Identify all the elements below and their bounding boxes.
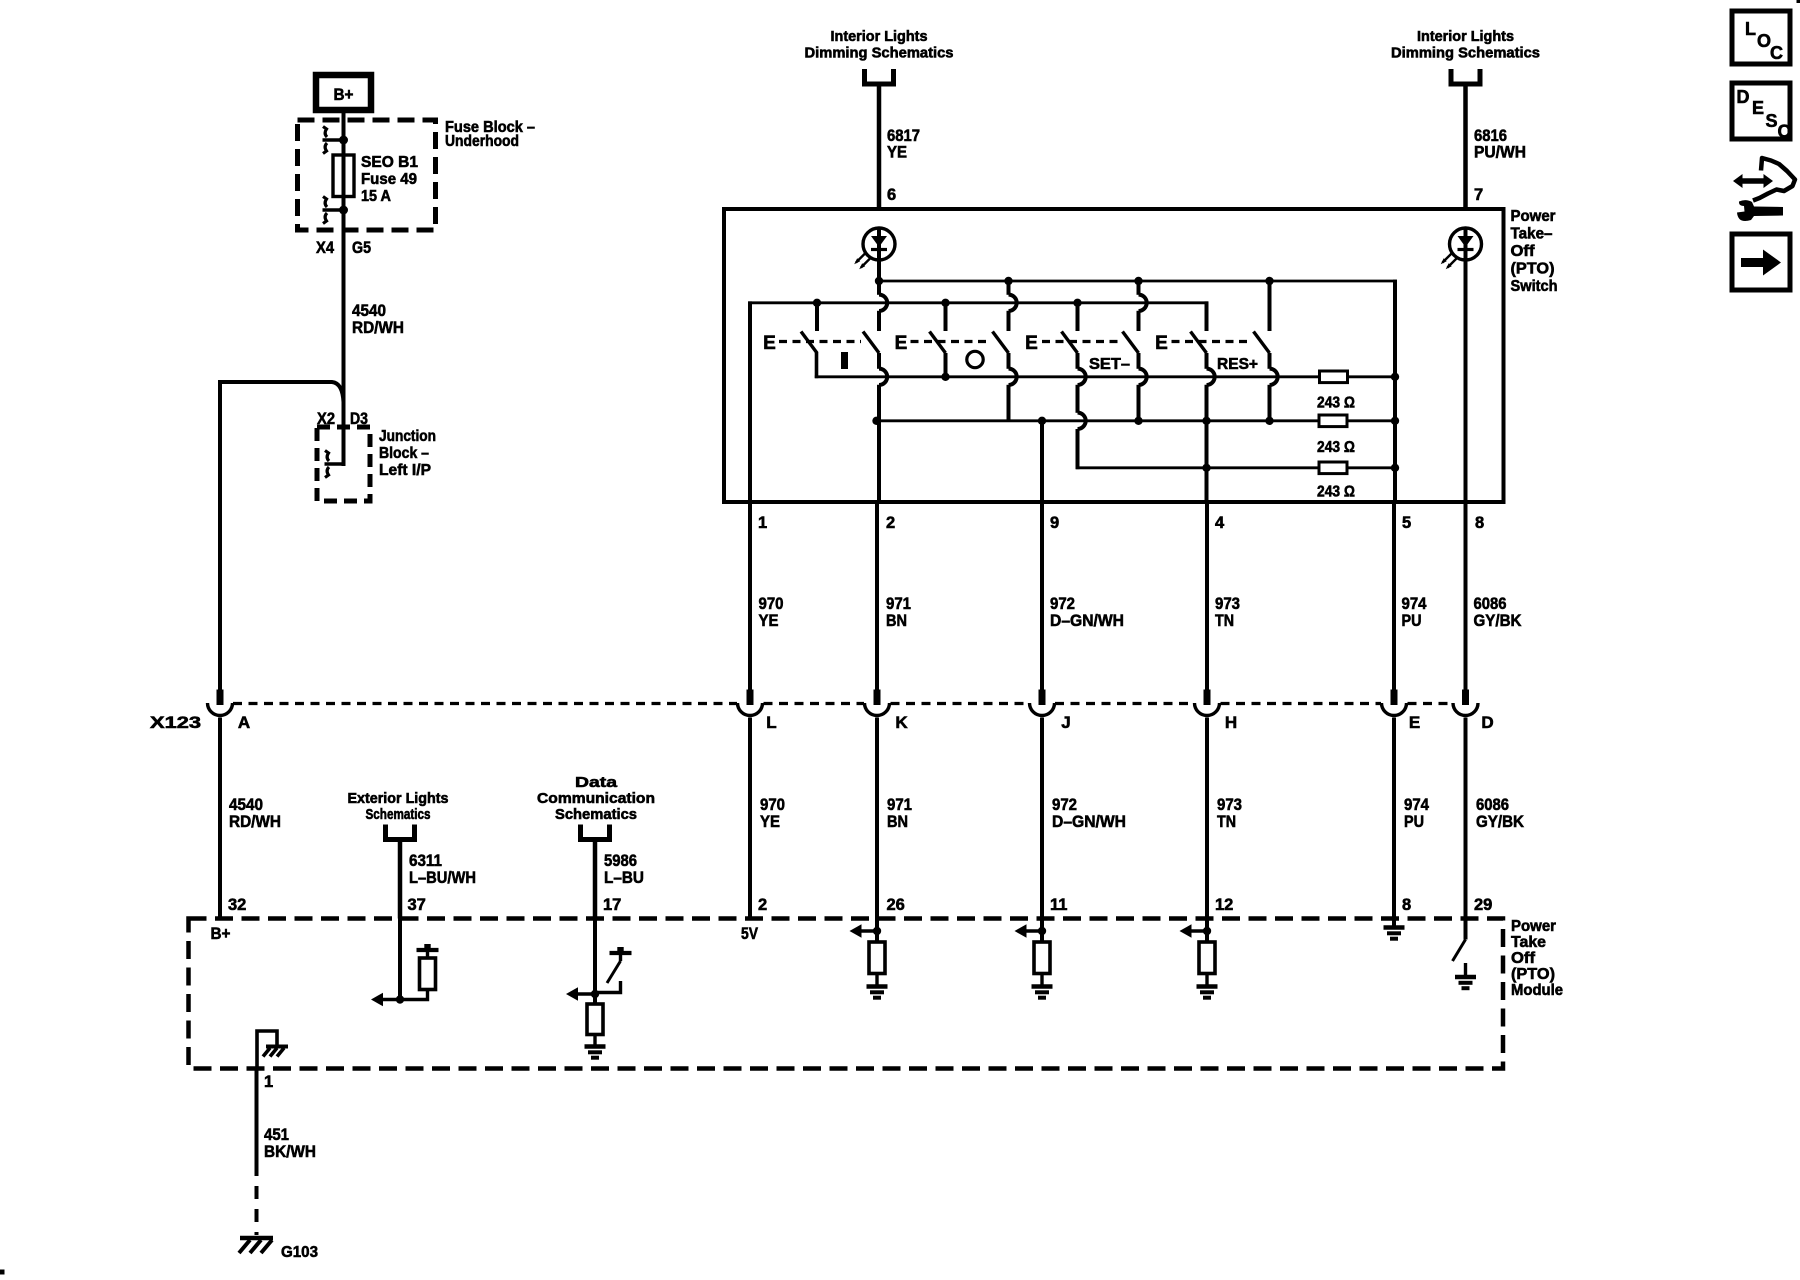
- svg-text:7: 7: [1474, 186, 1483, 204]
- svg-text:9: 9: [1050, 514, 1059, 532]
- svg-text:Take–: Take–: [1511, 226, 1553, 243]
- svg-text:GY/BK: GY/BK: [1476, 812, 1525, 831]
- svg-text:32: 32: [228, 896, 246, 914]
- svg-text:(PTO): (PTO): [1511, 261, 1555, 278]
- svg-text:Dimming Schematics: Dimming Schematics: [1391, 45, 1540, 62]
- svg-text:243 Ω: 243 Ω: [1317, 439, 1355, 456]
- svg-text:8: 8: [1475, 514, 1484, 532]
- svg-text:Data: Data: [575, 774, 618, 791]
- svg-text:8: 8: [1402, 896, 1411, 914]
- svg-text:37: 37: [408, 896, 426, 914]
- svg-text:E: E: [1025, 333, 1038, 354]
- svg-text:E: E: [895, 333, 908, 354]
- svg-text:Schematics: Schematics: [555, 806, 637, 823]
- svg-text:29: 29: [1474, 896, 1492, 914]
- svg-text:1: 1: [264, 1073, 273, 1091]
- svg-text:2: 2: [758, 896, 767, 914]
- svg-text:E: E: [763, 333, 776, 354]
- svg-text:Power: Power: [1511, 208, 1556, 225]
- svg-text:11: 11: [1050, 896, 1067, 914]
- svg-text:Power: Power: [1511, 918, 1556, 935]
- svg-text:H: H: [1225, 713, 1237, 732]
- svg-text:243 Ω: 243 Ω: [1317, 484, 1355, 501]
- svg-text:RES+: RES+: [1217, 356, 1258, 373]
- svg-text:E: E: [1752, 98, 1764, 118]
- svg-text:A: A: [238, 713, 250, 732]
- svg-text:Off: Off: [1511, 950, 1536, 967]
- svg-text:6: 6: [887, 186, 896, 204]
- svg-text:D3: D3: [350, 409, 368, 428]
- svg-text:5: 5: [1402, 514, 1411, 532]
- svg-text:B+: B+: [211, 924, 231, 943]
- svg-text:RD/WH: RD/WH: [352, 318, 404, 337]
- svg-text:BN: BN: [887, 812, 908, 831]
- svg-text:K: K: [895, 713, 908, 732]
- svg-text:YE: YE: [759, 611, 779, 630]
- svg-text:17: 17: [603, 896, 621, 914]
- svg-text:X123: X123: [150, 713, 201, 732]
- svg-text:J: J: [1061, 713, 1070, 732]
- svg-text:B+: B+: [334, 85, 354, 104]
- svg-text:Dimming Schematics: Dimming Schematics: [805, 45, 954, 62]
- svg-text:12: 12: [1215, 896, 1233, 914]
- svg-text:5V: 5V: [741, 924, 759, 943]
- svg-text:PU/WH: PU/WH: [1474, 143, 1526, 162]
- svg-text:Exterior Lights: Exterior Lights: [348, 790, 449, 807]
- svg-text:Module: Module: [1511, 982, 1563, 999]
- svg-text:PU: PU: [1402, 611, 1422, 630]
- svg-text:L: L: [1745, 19, 1756, 39]
- svg-text:L–BU/WH: L–BU/WH: [409, 868, 476, 887]
- svg-text:C: C: [1778, 122, 1791, 142]
- svg-text:Communication: Communication: [537, 790, 655, 807]
- svg-text:1: 1: [758, 514, 767, 532]
- svg-text:Left I/P: Left I/P: [379, 462, 431, 479]
- svg-text:L: L: [766, 713, 776, 732]
- svg-text:Take: Take: [1511, 934, 1546, 951]
- svg-text:L–BU: L–BU: [604, 868, 644, 887]
- svg-text:RD/WH: RD/WH: [229, 812, 281, 831]
- svg-text:Fuse 49: Fuse 49: [361, 171, 417, 188]
- svg-text:15 A: 15 A: [361, 188, 391, 205]
- svg-text:S: S: [1766, 111, 1778, 131]
- svg-text:TN: TN: [1215, 611, 1234, 630]
- svg-text:Interior Lights: Interior Lights: [831, 28, 928, 45]
- svg-text:BN: BN: [886, 611, 907, 630]
- svg-text:PU: PU: [1404, 812, 1424, 831]
- svg-text:D: D: [1737, 87, 1750, 107]
- svg-text:G5: G5: [352, 238, 371, 257]
- svg-text:Interior Lights: Interior Lights: [1417, 28, 1514, 45]
- svg-text:TN: TN: [1217, 812, 1236, 831]
- svg-text:E: E: [1409, 713, 1420, 732]
- svg-text:(PTO): (PTO): [1511, 966, 1555, 983]
- svg-text:BK/WH: BK/WH: [264, 1142, 316, 1161]
- svg-text:C: C: [1770, 43, 1783, 63]
- svg-text:Block –: Block –: [379, 445, 429, 462]
- svg-text:2: 2: [886, 514, 895, 532]
- svg-text:Off: Off: [1511, 243, 1536, 260]
- svg-text:E: E: [1155, 333, 1168, 354]
- svg-text:X2: X2: [317, 409, 335, 428]
- svg-text:D: D: [1481, 713, 1493, 732]
- svg-text:4: 4: [1215, 514, 1225, 532]
- svg-text:Underhood: Underhood: [445, 133, 519, 150]
- svg-text:Junction: Junction: [379, 428, 436, 445]
- svg-text:GY/BK: GY/BK: [1474, 611, 1523, 630]
- svg-text:SET–: SET–: [1089, 356, 1130, 373]
- svg-text:D–GN/WH: D–GN/WH: [1050, 611, 1124, 630]
- svg-text:SEO B1: SEO B1: [361, 154, 418, 171]
- svg-text:D–GN/WH: D–GN/WH: [1052, 812, 1126, 831]
- svg-text:YE: YE: [760, 812, 780, 831]
- svg-text:Switch: Switch: [1511, 278, 1558, 295]
- svg-text:YE: YE: [887, 143, 907, 162]
- svg-text:Schematics: Schematics: [366, 806, 431, 823]
- svg-text:243 Ω: 243 Ω: [1317, 395, 1355, 412]
- svg-text:G103: G103: [281, 1244, 318, 1261]
- svg-text:X4: X4: [316, 238, 334, 257]
- svg-text:O: O: [1757, 31, 1771, 51]
- svg-text:26: 26: [887, 896, 905, 914]
